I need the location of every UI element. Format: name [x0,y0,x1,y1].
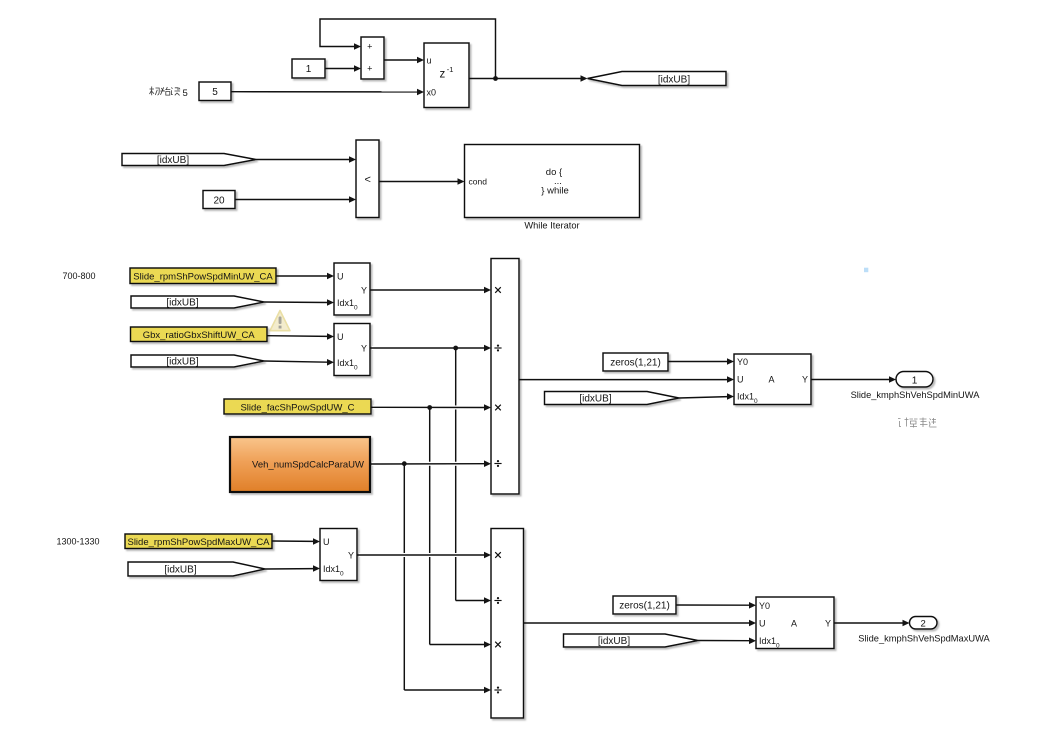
svg-text:u: u [427,55,432,65]
wire tag1 to selector1 U [276,273,334,280]
svg-text:Y: Y [802,374,808,384]
selector block 2 [334,324,370,376]
svg-text:Idx1: Idx1 [323,564,340,574]
while iterator block [465,145,640,218]
vertical wire from selector2 Y down to product2 input 2 [455,348,457,601]
constant 20 [203,191,235,209]
wire constant 1 to sum input 2 [325,65,361,72]
svg-text:[idxUB]: [idxUB] [166,357,198,368]
selector block 1 [334,263,370,315]
assignment block 1 [734,354,811,405]
svg-text:0: 0 [754,398,758,405]
yellow tag Gbx_ratioGbxShiftUW_CA [131,327,268,342]
wire elbow orange branch to product2 divide [404,687,491,694]
svg-text:Y: Y [361,285,367,295]
wire tag2 to selector2 U [267,333,334,340]
svg-text:U: U [759,618,766,628]
svg-text:Y: Y [361,343,367,353]
sum block Add [361,37,384,79]
junction dot tag3 wire [427,405,432,410]
constant 5 [199,82,231,101]
svg-text:Y: Y [825,618,831,628]
assignment block 2 [756,597,834,650]
svg-text:1: 1 [306,64,312,75]
svg-text:Slide_rpmShPowSpdMinUW_CA: Slide_rpmShPowSpdMinUW_CA [133,272,273,283]
svg-text:While Iterator: While Iterator [524,220,579,230]
svg-text:Idx1: Idx1 [737,391,754,401]
orange subsystem Veh_numSpdCalcParaUW [230,437,370,492]
svg-text:cond: cond [469,177,488,187]
from tag [idxUB] C [131,355,264,368]
svg-text:Slide_kmphShVehSpdMinUWA: Slide_kmphShVehSpdMinUWA [851,390,981,400]
wire from tag C to selector2 Idx1 [264,359,334,366]
vertical wire from orange block down to product2 input 4 [403,464,405,690]
svg-text:U: U [337,271,344,281]
svg-text:x0: x0 [427,87,437,97]
wire from tag E to selector3 Idx1 [265,565,320,572]
from tag [idxUB] E [128,562,265,576]
svg-text:0: 0 [354,305,358,312]
wire assignment2 Y to outport 2 [834,620,910,627]
from tag [idxUB] F [564,634,699,647]
constant zeros(1,21) upper [603,353,668,371]
svg-text:+: + [367,42,372,52]
constant 1 [292,59,325,78]
wire unit delay output to goto tag [469,75,588,82]
svg-text:A: A [791,618,797,628]
wire tag3 to product1 x [371,404,491,411]
wire selector2 Y to product1 divide [370,345,491,352]
svg-text:Idx1: Idx1 [337,298,354,308]
wire selector3 Y to product2 x [357,552,491,559]
relational operator < [356,140,379,218]
svg-text:Y0: Y0 [759,601,770,611]
svg-text:Idx1: Idx1 [759,636,776,646]
vertical wire from tag3 down to product2 input 3 [429,408,431,645]
wire zeros2 to assignment2 Y0 [676,602,756,609]
svg-text:+: + [367,64,372,74]
svg-text:U: U [323,537,330,547]
wire product2 output to assignment2 U [524,620,757,627]
svg-text:Slide_facShPowSpdUW_C: Slide_facShPowSpdUW_C [240,402,354,413]
wire from tag B to selector1 Idx1 [264,299,334,306]
yellow tag Slide_facShPowSpdUW_C [224,399,371,414]
product block 1 [491,259,519,495]
svg-text:} while: } while [541,186,568,197]
svg-text:zeros(1,21): zeros(1,21) [610,358,661,369]
svg-text:Idx1: Idx1 [337,358,354,368]
svg-text:-1: -1 [447,65,454,74]
selector block 3 [320,529,357,581]
svg-text:[idxUB]: [idxUB] [598,636,630,647]
from tag [idxUB] D [545,392,680,405]
wire selector1 Y to product1 x [370,287,491,294]
svg-text:5: 5 [212,87,218,98]
svg-text:U: U [337,332,344,342]
wire orange block to product1 divide [370,460,491,467]
wire constant 5 to unit delay x0 [231,89,424,96]
junction dot on unit delay output [493,76,498,81]
wire constant 20 to relational input 2 [235,196,356,203]
svg-text:A: A [768,374,774,384]
svg-text:Slide_kmphShVehSpdMaxUWA: Slide_kmphShVehSpdMaxUWA [858,634,990,644]
svg-text:[idxUB]: [idxUB] [157,155,189,166]
wire from tag F to assignment2 Idx1 [698,638,756,645]
svg-text:[idxUB]: [idxUB] [166,298,198,309]
svg-text:Gbx_ratioGbxShiftUW_CA: Gbx_ratioGbxShiftUW_CA [143,330,256,341]
wire from tag A to relational input 1 [256,156,356,163]
svg-text:1300-1330: 1300-1330 [56,537,99,547]
junction dot selector2 wire [453,346,458,351]
wire relational output to while cond [379,178,465,185]
wire feedback loop from unit delay output to sum input 1 [320,19,496,79]
svg-text:Slide_rpmShPowSpdMaxUW_CA: Slide_rpmShPowSpdMaxUW_CA [127,537,270,548]
constant zeros(1,21) lower [613,596,676,614]
svg-text:2: 2 [921,618,926,629]
svg-text:z: z [440,69,446,81]
blue dot annotation [864,268,868,273]
junction dot orange wire [402,461,407,466]
svg-text:700-800: 700-800 [62,271,95,281]
svg-text:0: 0 [776,643,780,650]
svg-text:[idxUB]: [idxUB] [164,565,196,576]
wire from tag D to assignment1 Idx1 [679,393,734,400]
wire product1 output to assignment1 U [519,376,734,383]
wire elbow tag3 branch to product2 x [430,641,491,648]
annotation 初始设5 (drawn strokes) [150,87,181,96]
svg-text:Y0: Y0 [737,357,748,367]
from tag [idxUB] A [122,154,256,167]
svg-text:0: 0 [340,570,344,577]
svg-text:[idxUB]: [idxUB] [579,394,611,405]
wire zeros1 to assignment1 Y0 [668,358,734,365]
goto tag [idxUB] [588,72,727,86]
svg-text:[idxUB]: [idxUB] [658,75,690,86]
svg-text:20: 20 [213,195,225,206]
wire sum output to unit delay u [384,57,424,64]
outport 1 [896,372,933,388]
svg-text:5: 5 [183,88,188,99]
svg-text:0: 0 [354,364,358,371]
svg-text:zeros(1,21): zeros(1,21) [619,601,670,612]
svg-text:<: < [364,174,370,186]
product block 2 [491,529,524,719]
wire elbow selector2 branch to product2 divide [456,597,491,604]
outport 2 [910,617,938,630]
svg-text:1: 1 [912,375,918,386]
wire tag4 to selector3 U [272,538,320,545]
wire assignment1 Y to outport 1 [811,376,896,383]
yellow tag Slide_rpmShPowSpdMaxUW_CA [125,534,272,549]
from tag [idxUB] B [131,296,264,309]
svg-text:U: U [737,374,744,384]
svg-text:Y: Y [348,550,354,560]
warning icon [270,311,290,331]
annotation 计算车速 (drawn strokes) [898,418,937,428]
unit delay block z^-1 [424,43,469,108]
yellow tag Slide_rpmShPowSpdMinUW_CA [130,268,276,284]
svg-text:Veh_numSpdCalcParaUW: Veh_numSpdCalcParaUW [252,459,364,470]
